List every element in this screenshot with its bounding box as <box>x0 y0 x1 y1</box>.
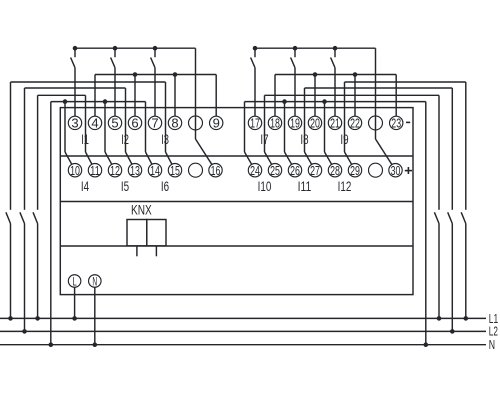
svg-text:22: 22 <box>350 116 360 131</box>
svg-text:23: 23 <box>391 116 401 131</box>
svg-text:18: 18 <box>270 116 280 131</box>
svg-text:11: 11 <box>90 163 100 178</box>
svg-text:I3: I3 <box>161 132 169 147</box>
svg-text:3: 3 <box>71 116 78 131</box>
svg-text:30: 30 <box>391 163 401 178</box>
svg-text:10: 10 <box>70 163 80 178</box>
svg-text:15: 15 <box>170 163 180 178</box>
svg-text:13: 13 <box>130 163 140 178</box>
svg-text:N: N <box>489 337 495 352</box>
svg-text:I12: I12 <box>338 179 352 194</box>
svg-text:27: 27 <box>310 163 320 178</box>
svg-text:I4: I4 <box>81 179 90 194</box>
svg-text:26: 26 <box>290 163 300 178</box>
svg-text:I11: I11 <box>298 179 312 194</box>
svg-text:14: 14 <box>150 163 160 178</box>
svg-text:I10: I10 <box>258 179 272 194</box>
svg-text:20: 20 <box>310 116 320 131</box>
svg-text:5: 5 <box>111 116 118 131</box>
svg-text:I7: I7 <box>260 132 268 147</box>
svg-text:17: 17 <box>250 116 260 131</box>
svg-text:25: 25 <box>270 163 280 178</box>
svg-text:I8: I8 <box>300 132 308 147</box>
svg-text:I9: I9 <box>340 132 348 147</box>
svg-text:21: 21 <box>330 116 340 131</box>
svg-text:4: 4 <box>91 116 98 131</box>
svg-text:24: 24 <box>250 163 260 178</box>
svg-text:I2: I2 <box>121 132 129 147</box>
svg-text:KNX: KNX <box>131 203 152 218</box>
svg-text:6: 6 <box>131 116 138 131</box>
svg-text:16: 16 <box>211 163 221 178</box>
svg-text:19: 19 <box>290 116 300 131</box>
svg-text:12: 12 <box>110 163 120 178</box>
svg-text:28: 28 <box>330 163 340 178</box>
svg-text:7: 7 <box>151 116 158 131</box>
svg-text:8: 8 <box>171 116 178 131</box>
svg-text:9: 9 <box>213 116 220 131</box>
svg-text:I5: I5 <box>121 179 129 194</box>
svg-text:I1: I1 <box>81 132 89 147</box>
svg-text:29: 29 <box>350 163 360 178</box>
svg-text:I6: I6 <box>161 179 169 194</box>
svg-text:L: L <box>73 275 78 288</box>
svg-text:N: N <box>92 275 97 288</box>
